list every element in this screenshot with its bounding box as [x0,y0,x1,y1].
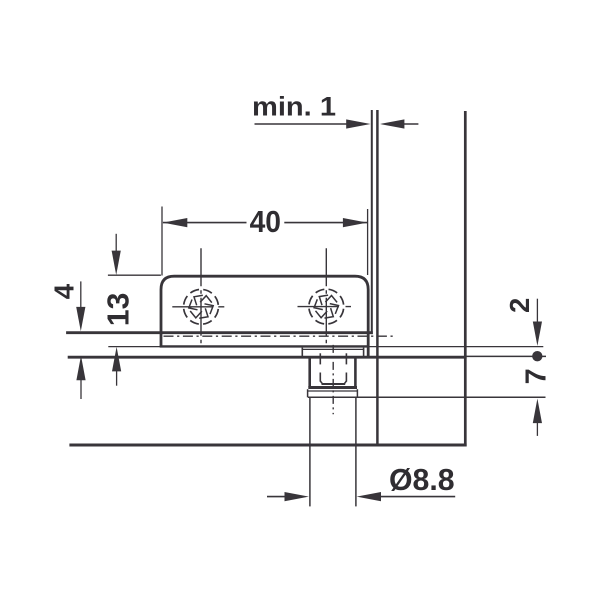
hinge bracket outline [161,276,368,357]
dimension 13 down arrow [112,251,121,275]
dimension min.1 left-pointing arrow [380,119,404,128]
screw S1 torx star [189,295,213,318]
dimension 40 left arrow [163,218,187,227]
reference line with dot [466,355,546,357]
glass door bottom edge / cabinet bottom top face [68,356,467,359]
bracket center dash-dot line [164,335,396,337]
svg-text:4: 4 [48,283,79,299]
svg-text:13: 13 [102,293,135,327]
dimension dia 8.8 left tail [267,496,286,498]
screw S2 horizontal centerline [298,306,352,308]
dimension 13 up arrow [112,347,121,372]
dimension 40 line right [284,222,367,224]
dimension min.1 right tail [402,123,418,125]
washer right side [356,389,358,397]
hole extension line left [309,398,311,506]
screw S2 torx star [314,295,338,318]
svg-text:7: 7 [520,368,552,384]
glass door top edge [66,331,373,334]
dimension 13 lower tail [116,371,118,386]
screw S1 horizontal centerline [172,306,229,308]
socket cup bottom [322,383,346,385]
dimension 40 right arrow [343,218,367,227]
socket cup left side [319,373,321,382]
socket cup right chamfer [344,381,346,384]
socket tick left [319,353,321,364]
hole extension line right [355,398,357,506]
svg-text:40: 40 [250,205,281,239]
dimension dia 8.8 right tail [380,496,455,498]
thin extension line at plate bottom [108,346,543,348]
dimension 40 extension line left [161,207,163,276]
svg-text:2: 2 [504,298,535,313]
dimension 2 down arrow [533,322,542,346]
dimension 13 upper line [115,234,117,252]
screw S2 circle [309,289,344,324]
dimension 2 upper line [536,299,538,322]
reference dot [532,351,542,361]
dimension dia 8.8 left arrow [285,492,309,501]
cabinet side panel front face [376,110,379,446]
cabinet bottom panel lower edge [69,444,466,447]
pivot pin bottom bar [308,386,357,389]
socket cup left chamfer [320,381,322,384]
pivot flange right side [363,348,365,358]
dimension 13 top extension tick [108,274,161,276]
socket tick right [345,353,347,364]
cabinet side panel back face [464,111,467,446]
pivot flange top edge [302,348,363,350]
dimension min.1 left line [255,123,348,125]
screw S2 vertical centerline [325,248,327,343]
bracket base plate bottom edge [160,345,370,347]
dimension 4 up arrow [76,356,85,381]
dimension 7 up arrow [533,399,542,424]
drilling depth line [308,396,546,398]
socket cup right side [345,373,347,382]
screw S1 circle [184,289,219,324]
pivot flange left side [301,348,303,358]
dimension 40 extension line right [367,209,369,275]
dimension 7 lower tail [536,423,538,436]
svg-text:Ø8.8: Ø8.8 [389,462,455,497]
dimension 4 down arrow [76,307,85,331]
pivot pin left side [308,358,311,387]
dimension 40 line left [163,222,247,224]
screw S1 vertical centerline [200,248,202,343]
dimension 4 upper line [80,281,82,308]
dimension 4 lower tail [80,380,82,400]
dimension min.1 right arrow head [346,119,370,128]
washer left side [307,389,309,397]
pivot pin right side [354,358,357,387]
door front edge line [371,110,373,334]
svg-text:min. 1: min. 1 [252,92,336,122]
washer top edge [308,390,358,392]
dimension dia 8.8 right arrow [357,492,381,501]
pin vertical centerline [332,345,334,414]
